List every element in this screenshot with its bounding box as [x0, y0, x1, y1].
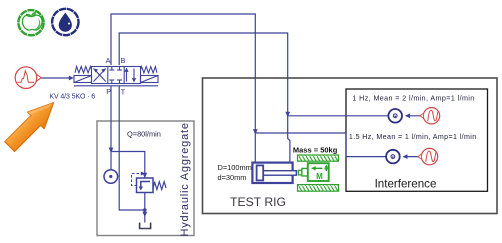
svg-text:M: M	[316, 172, 323, 181]
svg-text:1.5 Hz, Mean = 1 l/min, Amp=1: 1.5 Hz, Mean = 1 l/min, Amp=1 l/min	[349, 133, 477, 141]
svg-text:Mass = 50kg: Mass = 50kg	[293, 145, 338, 154]
svg-text:TEST RIG: TEST RIG	[230, 195, 286, 209]
svg-text:Q=80l/min: Q=80l/min	[127, 130, 161, 139]
svg-text:Hydraulic Aggregate: Hydraulic Aggregate	[179, 122, 191, 236]
svg-text:D=100mm: D=100mm	[218, 163, 252, 172]
svg-text:d=30mm: d=30mm	[218, 173, 247, 182]
svg-text:T: T	[121, 87, 126, 96]
svg-text:B: B	[121, 56, 126, 65]
svg-text:P: P	[106, 87, 111, 96]
svg-text:1 Hz, Mean = 2 l/min, Amp=1 l/: 1 Hz, Mean = 2 l/min, Amp=1 l/min	[352, 95, 474, 103]
svg-text:Interference: Interference	[375, 177, 437, 190]
svg-text:A: A	[106, 56, 111, 65]
svg-text:KV 4/3 5KO · 6: KV 4/3 5KO · 6	[49, 93, 95, 100]
